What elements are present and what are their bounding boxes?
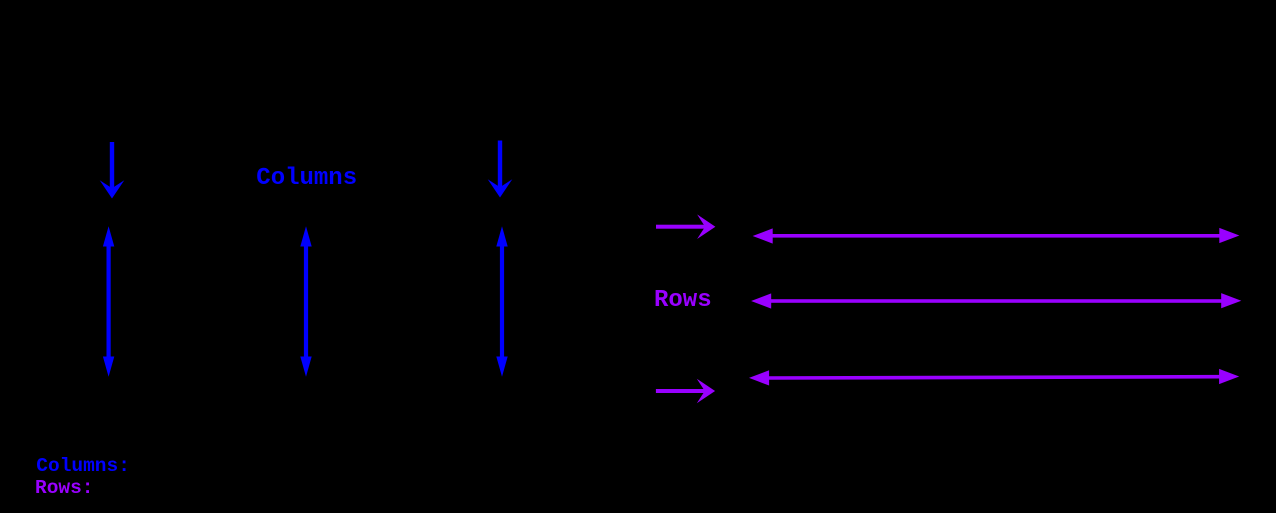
purple horizontal double arrow 2: [751, 293, 1241, 309]
blue vertical double arrow 2: [300, 226, 311, 376]
blue vertical double arrow 3: [496, 226, 507, 376]
svg-text:Columns:: Columns:: [36, 455, 130, 477]
purple horizontal double arrow 1: [753, 228, 1240, 244]
svg-text:Columns: Columns: [256, 165, 357, 192]
svg-text:Rows: Rows: [654, 287, 712, 314]
blue down arrow right (col pointer 2): [488, 141, 513, 198]
blue down arrow left (col pointer 1): [100, 142, 125, 199]
blue vertical double arrow 1: [103, 226, 114, 376]
purple short right arrow bottom (row pointer 2): [656, 379, 715, 404]
svg-text:Rows:: Rows:: [35, 477, 94, 499]
purple horizontal double arrow 3: [749, 369, 1239, 386]
purple short right arrow top (row pointer 1): [656, 214, 715, 239]
